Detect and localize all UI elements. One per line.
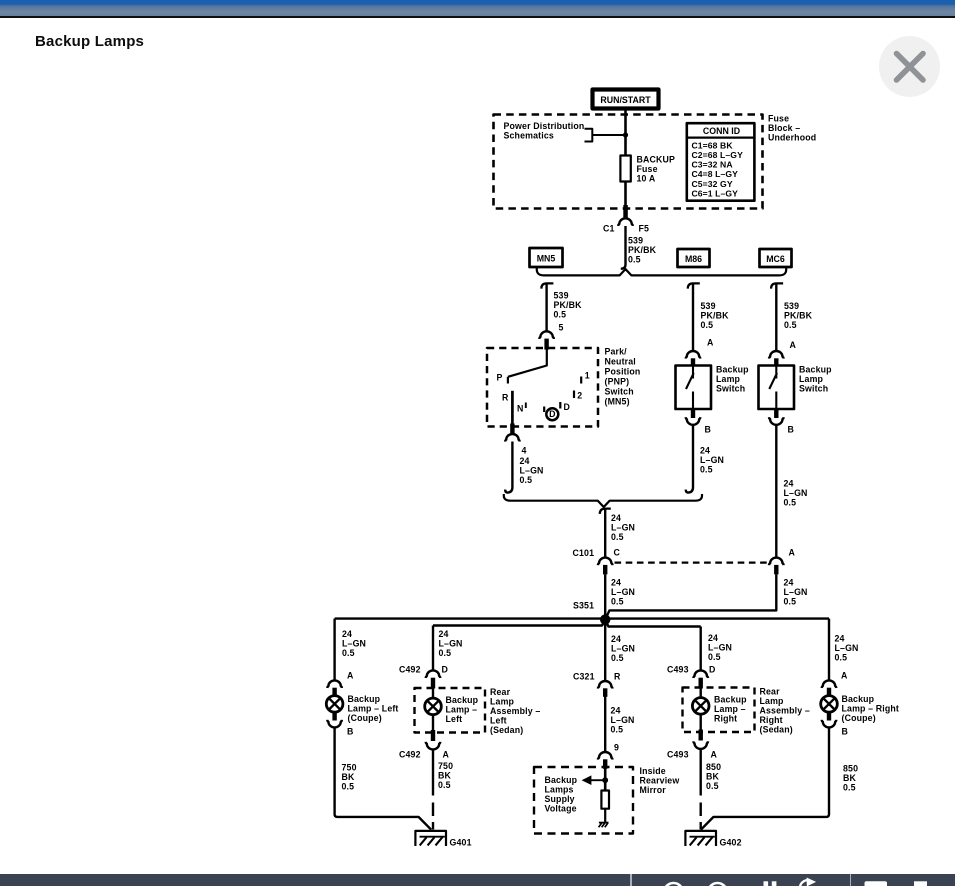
svg-text:539: 539 bbox=[554, 291, 569, 301]
svg-text:PK/BK: PK/BK bbox=[701, 311, 730, 321]
svg-text:BK: BK bbox=[706, 772, 720, 782]
wire resistor to ground bbox=[604, 809, 606, 823]
svg-text:R: R bbox=[502, 393, 509, 403]
svg-text:RUN/START: RUN/START bbox=[600, 95, 651, 105]
svg-text:L–GN: L–GN bbox=[700, 455, 724, 465]
wire label 539 PK/BK 0.5 bbox=[628, 236, 657, 265]
svg-text:BK: BK bbox=[438, 771, 452, 781]
svg-text:G402: G402 bbox=[720, 837, 742, 847]
svg-text:PK/BK: PK/BK bbox=[628, 245, 657, 255]
svg-text:A: A bbox=[443, 750, 450, 760]
svg-text:S351: S351 bbox=[573, 601, 594, 611]
svg-text:Lamps: Lamps bbox=[545, 785, 574, 795]
connector at coupe right lamp A bbox=[822, 680, 837, 688]
svg-text:PK/BK: PK/BK bbox=[554, 300, 583, 310]
svg-text:24: 24 bbox=[611, 578, 621, 588]
MN5 branch wire bbox=[545, 283, 547, 331]
svg-text:24: 24 bbox=[784, 578, 794, 588]
svg-text:A: A bbox=[789, 548, 796, 558]
svg-text:24: 24 bbox=[611, 706, 621, 716]
backup lamp right (coupe) bbox=[821, 696, 838, 713]
rear lamp assembly left dashed box bbox=[415, 688, 486, 733]
label: Rear Lamp Assembly - Left (Sedan) bbox=[490, 687, 540, 735]
svg-text:Rear: Rear bbox=[490, 687, 511, 697]
wire C321 to mirror bbox=[604, 697, 606, 752]
wire fuse to C1 bbox=[624, 182, 627, 206]
connector at PNP pin 4 bbox=[505, 434, 520, 442]
label: Park/Neutral Position (PNP) Switch (MN5) bbox=[605, 347, 641, 407]
svg-text:0.5: 0.5 bbox=[520, 475, 533, 485]
svg-text:0.5: 0.5 bbox=[701, 320, 714, 330]
svg-text:D: D bbox=[442, 665, 449, 675]
svg-text:850: 850 bbox=[843, 764, 858, 774]
svg-text:24: 24 bbox=[700, 446, 710, 456]
label: Backup Lamp - Left bbox=[446, 695, 479, 724]
svg-text:0.5: 0.5 bbox=[706, 781, 719, 791]
wire label 24 L-GN 0.5 (MC6 long) bbox=[784, 479, 808, 508]
wire M86 switch to gather brace bbox=[686, 425, 693, 492]
distribution brace (3-way split) bbox=[537, 268, 786, 276]
svg-text:0.5: 0.5 bbox=[708, 652, 721, 662]
svg-text:Supply: Supply bbox=[545, 794, 575, 804]
svg-text:Inside: Inside bbox=[640, 766, 666, 776]
contact 2 bbox=[574, 391, 582, 401]
svg-text:L–GN: L–GN bbox=[611, 644, 635, 654]
svg-text:C1=68 BK: C1=68 BK bbox=[692, 140, 734, 150]
svg-text:B: B bbox=[788, 425, 795, 435]
svg-text:L–GN: L–GN bbox=[835, 643, 859, 653]
connector C492 pin D bbox=[426, 670, 441, 678]
svg-text:Neutral: Neutral bbox=[605, 357, 636, 367]
wire label 24 L-GN 0.5 (center) bbox=[611, 634, 635, 663]
toolbar icon: forward arrow bbox=[800, 880, 807, 886]
bus wire right (to coupe right lamp) bbox=[605, 617, 829, 619]
label: Backup Lamp - Left (Coupe) bbox=[348, 694, 399, 723]
svg-text:1: 1 bbox=[585, 371, 590, 381]
M86 branch pigtail bbox=[688, 283, 700, 288]
fuse BACKUP 10A bbox=[620, 155, 675, 184]
svg-text:(Sedan): (Sedan) bbox=[490, 725, 523, 735]
svg-text:539: 539 bbox=[628, 236, 643, 246]
svg-text:24: 24 bbox=[520, 456, 530, 466]
connector C493 pin A bbox=[693, 741, 708, 749]
svg-text:0.5: 0.5 bbox=[611, 532, 624, 542]
wire label 539 PK/BK 0.5 (MC6) bbox=[784, 301, 813, 330]
svg-text:R: R bbox=[614, 672, 621, 682]
RUN/START box bbox=[593, 90, 659, 109]
drop wire sedan right bbox=[700, 627, 702, 671]
svg-text:0.5: 0.5 bbox=[342, 782, 355, 792]
svg-text:9: 9 bbox=[614, 743, 619, 753]
svg-text:D: D bbox=[709, 665, 716, 675]
wire sedan right lamp to box edge bbox=[700, 714, 702, 729]
connector at coupe right lamp B bbox=[822, 720, 837, 728]
switch B stub (MC6) bbox=[774, 409, 778, 419]
svg-text:Power Distribution: Power Distribution bbox=[504, 121, 585, 131]
svg-text:BK: BK bbox=[843, 773, 857, 783]
svg-text:L–GN: L–GN bbox=[784, 587, 808, 597]
wire label 850 BK 0.5 (sedan right) bbox=[706, 762, 721, 791]
connector C1 female cup bbox=[618, 218, 633, 226]
svg-text:A: A bbox=[347, 671, 354, 681]
wire C101-A to S351 bbox=[606, 574, 777, 618]
connector at switch A (M86) bbox=[686, 351, 701, 359]
svg-text:BK: BK bbox=[342, 772, 356, 782]
svg-text:B: B bbox=[347, 727, 354, 737]
connector at PNP pin 5 bbox=[539, 331, 554, 339]
svg-text:0.5: 0.5 bbox=[784, 320, 797, 330]
junction dot in mirror bbox=[602, 777, 608, 783]
svg-text:M86: M86 bbox=[685, 254, 702, 264]
connector C492 pin A bbox=[426, 742, 441, 750]
wire brace to C101 bbox=[604, 509, 606, 557]
splice S351 bbox=[600, 614, 610, 624]
svg-text:D: D bbox=[549, 409, 555, 419]
drop wire sedan left bbox=[432, 626, 434, 671]
svg-text:Lamp – Left: Lamp – Left bbox=[348, 704, 399, 714]
toolbar icon: card bbox=[865, 881, 888, 886]
svg-text:B: B bbox=[705, 425, 712, 435]
svg-text:0.5: 0.5 bbox=[439, 648, 452, 658]
svg-text:PK/BK: PK/BK bbox=[784, 311, 813, 321]
svg-text:0.5: 0.5 bbox=[611, 725, 624, 735]
label: Backup Lamp Switch (M86) bbox=[716, 365, 749, 394]
svg-text:24: 24 bbox=[611, 634, 621, 644]
label: Backup Lamp Switch (MC6) bbox=[799, 365, 832, 394]
svg-text:D: D bbox=[564, 402, 571, 412]
CONN ID table bbox=[687, 123, 755, 201]
svg-text:(Coupe): (Coupe) bbox=[348, 713, 382, 723]
svg-text:750: 750 bbox=[438, 761, 453, 771]
label: Fuse Block - Underhood bbox=[768, 114, 816, 143]
fuse block underhood dashed box bbox=[494, 115, 763, 209]
drop wire center (C321) bbox=[604, 624, 606, 681]
backup lamp switch box (M86) bbox=[676, 366, 712, 410]
svg-text:MN5: MN5 bbox=[537, 254, 556, 264]
svg-text:2: 2 bbox=[577, 391, 582, 401]
svg-text:0.5: 0.5 bbox=[843, 783, 856, 793]
sedan right lamp A stub bbox=[699, 730, 703, 741]
svg-text:Fuse: Fuse bbox=[768, 114, 789, 124]
svg-text:Backup: Backup bbox=[446, 695, 479, 705]
svg-text:C493: C493 bbox=[667, 750, 689, 760]
svg-text:10 A: 10 A bbox=[637, 174, 656, 184]
svg-text:Block –: Block – bbox=[768, 123, 800, 133]
svg-text:Backup: Backup bbox=[842, 694, 875, 704]
wire label 24 L-GN 0.5 (below C101 C) bbox=[611, 578, 635, 607]
bus wire to sedan right lamp bbox=[605, 621, 701, 627]
wire label 750 BK 0.5 (sedan left) bbox=[438, 761, 453, 790]
wire sedan left lamp to box edge bbox=[432, 715, 434, 730]
connector at switch A (MC6) bbox=[769, 351, 784, 359]
svg-text:4: 4 bbox=[522, 446, 527, 456]
reference bracket to wire bbox=[585, 129, 626, 142]
top blue gradient bar bbox=[0, 0, 955, 18]
wire label 539 PK/BK 0.5 (M86) bbox=[701, 301, 730, 330]
toolbar icon: zoom-out circle bbox=[664, 883, 683, 886]
svg-text:0.5: 0.5 bbox=[700, 465, 713, 475]
svg-text:C101: C101 bbox=[573, 548, 595, 558]
svg-text:5: 5 bbox=[559, 323, 564, 333]
svg-text:Schematics: Schematics bbox=[504, 131, 554, 141]
svg-text:C492: C492 bbox=[399, 665, 421, 675]
C101 dashed connector line bbox=[615, 561, 769, 563]
ground G401 bbox=[415, 831, 446, 846]
svg-text:L–GN: L–GN bbox=[520, 466, 544, 476]
svg-text:Switch: Switch bbox=[605, 387, 634, 397]
svg-text:MC6: MC6 bbox=[766, 254, 785, 264]
svg-text:L–GN: L–GN bbox=[342, 639, 366, 649]
svg-text:L–GN: L–GN bbox=[708, 643, 732, 653]
drop wire coupe left bbox=[333, 619, 335, 681]
svg-text:Underhood: Underhood bbox=[768, 133, 816, 143]
connector C101 pin A bbox=[769, 558, 784, 566]
svg-text:Lamp: Lamp bbox=[799, 374, 824, 384]
svg-text:0.5: 0.5 bbox=[342, 648, 355, 658]
MC6 branch pigtail bbox=[771, 283, 783, 288]
wire label 539 PK/BK 0.5 (MN5) bbox=[554, 291, 583, 320]
svg-text:Park/: Park/ bbox=[605, 347, 628, 357]
wire label 24 L-GN 0.5 (sedan right) bbox=[708, 633, 732, 662]
MC6 branch wire bbox=[775, 283, 777, 350]
svg-text:L–GN: L–GN bbox=[611, 587, 635, 597]
svg-text:F5: F5 bbox=[639, 224, 650, 234]
svg-text:850: 850 bbox=[706, 762, 721, 772]
gather brace (2-way merge) bbox=[504, 494, 702, 507]
wire label 850 BK 0.5 (coupe right) bbox=[843, 764, 858, 793]
wire into sedan right lamp bbox=[700, 688, 702, 698]
svg-text:Rearview: Rearview bbox=[640, 776, 680, 786]
label: Power Distribution Schematics bbox=[504, 121, 585, 141]
backup lamp left (coupe) bbox=[326, 696, 343, 713]
svg-text:Switch: Switch bbox=[716, 384, 745, 394]
contact D bbox=[560, 402, 570, 412]
svg-text:C6=1 L–GY: C6=1 L–GY bbox=[692, 188, 739, 198]
svg-text:Switch: Switch bbox=[799, 384, 828, 394]
svg-text:24: 24 bbox=[784, 479, 794, 489]
PNP pin 4 stub bbox=[510, 424, 514, 435]
svg-text:Backup: Backup bbox=[714, 695, 747, 705]
PNP switch dashed box bbox=[487, 348, 598, 427]
contact tick near ring bbox=[543, 407, 545, 413]
wire label 24 L-GN 0.5 (C321) bbox=[611, 706, 635, 735]
svg-text:0.5: 0.5 bbox=[611, 597, 624, 607]
mirror internal ground bbox=[599, 823, 609, 828]
wire C493 to G402 (part dashed) bbox=[700, 749, 702, 829]
svg-text:539: 539 bbox=[784, 301, 799, 311]
svg-text:B: B bbox=[842, 727, 849, 737]
svg-text:Rear: Rear bbox=[760, 687, 781, 697]
svg-text:Lamp: Lamp bbox=[716, 374, 741, 384]
close button circle bbox=[879, 36, 940, 97]
backup lamp left (sedan) bbox=[425, 698, 442, 715]
wire into sedan left lamp bbox=[432, 688, 434, 698]
svg-text:G401: G401 bbox=[450, 837, 472, 847]
svg-text:Assembly –: Assembly – bbox=[760, 706, 810, 716]
svg-text:C3=32 NA: C3=32 NA bbox=[692, 160, 733, 170]
svg-text:0.5: 0.5 bbox=[784, 597, 797, 607]
bus wire to sedan left lamp bbox=[433, 621, 605, 626]
wire C1 to splice brace bbox=[621, 226, 626, 269]
svg-text:C5=32 GY: C5=32 GY bbox=[692, 179, 733, 189]
svg-text:A: A bbox=[707, 338, 714, 348]
svg-text:Fuse: Fuse bbox=[637, 164, 658, 174]
label: Backup Lamp - Right bbox=[714, 695, 747, 724]
wire MC6 switch down to C101 bbox=[775, 425, 777, 557]
connector C101 pin C bbox=[598, 558, 613, 566]
svg-text:L–GN: L–GN bbox=[784, 488, 808, 498]
backup lamp right (sedan) bbox=[692, 698, 709, 715]
svg-text:Backup: Backup bbox=[545, 775, 578, 785]
drop wire coupe right bbox=[828, 619, 830, 681]
node box M86 bbox=[678, 249, 710, 267]
svg-text:Lamp –: Lamp – bbox=[714, 704, 746, 714]
svg-text:(PNP): (PNP) bbox=[605, 377, 630, 387]
wire from RUN/START to fuse bbox=[624, 111, 627, 156]
svg-text:Right: Right bbox=[760, 715, 783, 725]
wire label 24 L-GN 0.5 (above C101 C) bbox=[611, 513, 635, 542]
connector C321 pin R bbox=[598, 681, 613, 689]
svg-text:Lamp: Lamp bbox=[760, 696, 785, 706]
toolbar icon: zoom-in circle bbox=[708, 883, 727, 886]
svg-text:A: A bbox=[711, 750, 718, 760]
connector at coupe left lamp B bbox=[327, 720, 342, 728]
label: Inside Rearview Mirror bbox=[640, 766, 680, 795]
rear lamp assembly right dashed box bbox=[683, 688, 755, 733]
svg-text:750: 750 bbox=[342, 763, 357, 773]
svg-text:Lamp: Lamp bbox=[490, 697, 515, 707]
wire label 24 L-GN 0.5 (M86) bbox=[700, 446, 724, 475]
junction dot at bracket/wire bbox=[623, 132, 628, 137]
contact N bbox=[517, 403, 526, 414]
svg-text:24: 24 bbox=[611, 513, 621, 523]
connector at coupe left lamp A bbox=[327, 680, 342, 688]
svg-text:0.5: 0.5 bbox=[628, 255, 641, 265]
svg-text:Backup: Backup bbox=[799, 365, 832, 375]
bottom dark toolbar bbox=[0, 874, 955, 886]
svg-text:C492: C492 bbox=[399, 750, 421, 760]
wire label 24 L-GN 0.5 (below C101 A) bbox=[784, 578, 808, 607]
node box MC6 bbox=[760, 249, 792, 267]
svg-text:A: A bbox=[841, 671, 848, 681]
connector mirror pin 9 bbox=[598, 752, 613, 760]
svg-text:0.5: 0.5 bbox=[438, 780, 451, 790]
svg-text:Backup: Backup bbox=[348, 694, 381, 704]
svg-text:A: A bbox=[790, 340, 797, 350]
svg-text:Left: Left bbox=[490, 716, 507, 726]
svg-text:P: P bbox=[497, 373, 503, 383]
wire label 24 L-GN 0.5 (pin4) bbox=[520, 456, 544, 485]
wire label 750 BK 0.5 (coupe left) bbox=[342, 763, 357, 792]
wire coupe right lamp to G402 bbox=[701, 728, 829, 830]
svg-text:C321: C321 bbox=[573, 672, 595, 682]
svg-text:L–GN: L–GN bbox=[611, 523, 635, 533]
svg-text:24: 24 bbox=[439, 629, 449, 639]
resistor in mirror bbox=[601, 791, 609, 809]
wire PNP to gather brace bbox=[505, 442, 512, 493]
svg-text:C: C bbox=[614, 548, 621, 558]
svg-text:CONN ID: CONN ID bbox=[703, 126, 740, 136]
svg-text:Mirror: Mirror bbox=[640, 785, 667, 795]
svg-text:Voltage: Voltage bbox=[545, 804, 577, 814]
ground G402 bbox=[685, 831, 716, 846]
connector C1 male stub bbox=[623, 205, 628, 218]
svg-text:N: N bbox=[517, 404, 524, 414]
svg-text:(MN5): (MN5) bbox=[605, 397, 630, 407]
switch B stub (M86) bbox=[691, 409, 695, 419]
svg-text:BACKUP: BACKUP bbox=[637, 155, 676, 165]
svg-text:C4=8 L–GY: C4=8 L–GY bbox=[692, 169, 739, 179]
svg-text:0.5: 0.5 bbox=[611, 653, 624, 663]
label: Backup Lamp - Right (Coupe) bbox=[842, 694, 900, 723]
svg-text:0.5: 0.5 bbox=[835, 653, 848, 663]
wire label 24 L-GN 0.5 (sedan left) bbox=[439, 629, 463, 658]
svg-text:L–GN: L–GN bbox=[439, 639, 463, 649]
svg-text:0.5: 0.5 bbox=[554, 310, 567, 320]
page title bbox=[35, 33, 144, 50]
svg-text:(Coupe): (Coupe) bbox=[842, 713, 876, 723]
svg-text:Backup: Backup bbox=[716, 365, 749, 375]
coupe right lamp B stub bbox=[827, 712, 831, 721]
svg-text:0.5: 0.5 bbox=[784, 498, 797, 508]
svg-text:C1: C1 bbox=[603, 224, 615, 234]
wire into mirror bbox=[604, 768, 607, 791]
wire label 24 L-GN 0.5 (coupe left) bbox=[342, 629, 366, 658]
label: Backup Lamps Supply Voltage bbox=[545, 775, 578, 814]
arrow to Backup Lamps Supply Voltage bbox=[582, 775, 606, 785]
sedan left lamp A stub bbox=[431, 730, 435, 741]
toolbar icon: page bbox=[914, 881, 927, 886]
PNP switch lever bbox=[508, 349, 547, 384]
toolbar icon: pause bars bbox=[764, 881, 769, 886]
label: Rear Lamp Assembly - Right (Sedan) bbox=[760, 687, 810, 735]
svg-text:Assembly –: Assembly – bbox=[490, 706, 540, 716]
M86 branch wire bbox=[692, 283, 694, 350]
connector C493 pin D bbox=[693, 670, 708, 678]
contact R line bbox=[511, 391, 514, 424]
MN5 branch pigtail bbox=[541, 283, 553, 288]
D position ring bbox=[546, 408, 558, 420]
svg-text:24: 24 bbox=[835, 634, 845, 644]
svg-text:L–GN: L–GN bbox=[611, 715, 635, 725]
svg-text:24: 24 bbox=[708, 633, 718, 643]
svg-text:Lamp – Right: Lamp – Right bbox=[842, 704, 900, 714]
backup lamp switch box (MC6) bbox=[759, 366, 795, 410]
inside rearview mirror dashed box bbox=[534, 767, 633, 834]
coupe left lamp B stub bbox=[332, 712, 336, 721]
svg-text:Right: Right bbox=[714, 714, 737, 724]
svg-text:(Sedan): (Sedan) bbox=[760, 725, 793, 735]
wire coupe left lamp to G401 bbox=[335, 728, 432, 830]
svg-text:Left: Left bbox=[446, 714, 463, 724]
bus wire left (to coupe left lamp) bbox=[335, 617, 606, 619]
brace output pigtail bbox=[600, 509, 611, 514]
svg-text:24: 24 bbox=[342, 629, 352, 639]
wire label 24 L-GN 0.5 (coupe right) bbox=[835, 634, 859, 663]
svg-text:C493: C493 bbox=[667, 665, 689, 675]
svg-text:C2=68 L–GY: C2=68 L–GY bbox=[692, 150, 744, 160]
svg-text:539: 539 bbox=[701, 301, 716, 311]
svg-text:Position: Position bbox=[605, 367, 641, 377]
svg-text:Lamp –: Lamp – bbox=[446, 705, 478, 715]
node box MN5 bbox=[530, 248, 563, 267]
connector at switch B (MC6) bbox=[769, 417, 784, 425]
contact 1 bbox=[581, 371, 590, 384]
connector at switch B (M86) bbox=[686, 417, 701, 425]
wire C492 to G401 (part dashed) bbox=[432, 750, 434, 830]
wire C101-C to S351 bbox=[604, 574, 606, 618]
